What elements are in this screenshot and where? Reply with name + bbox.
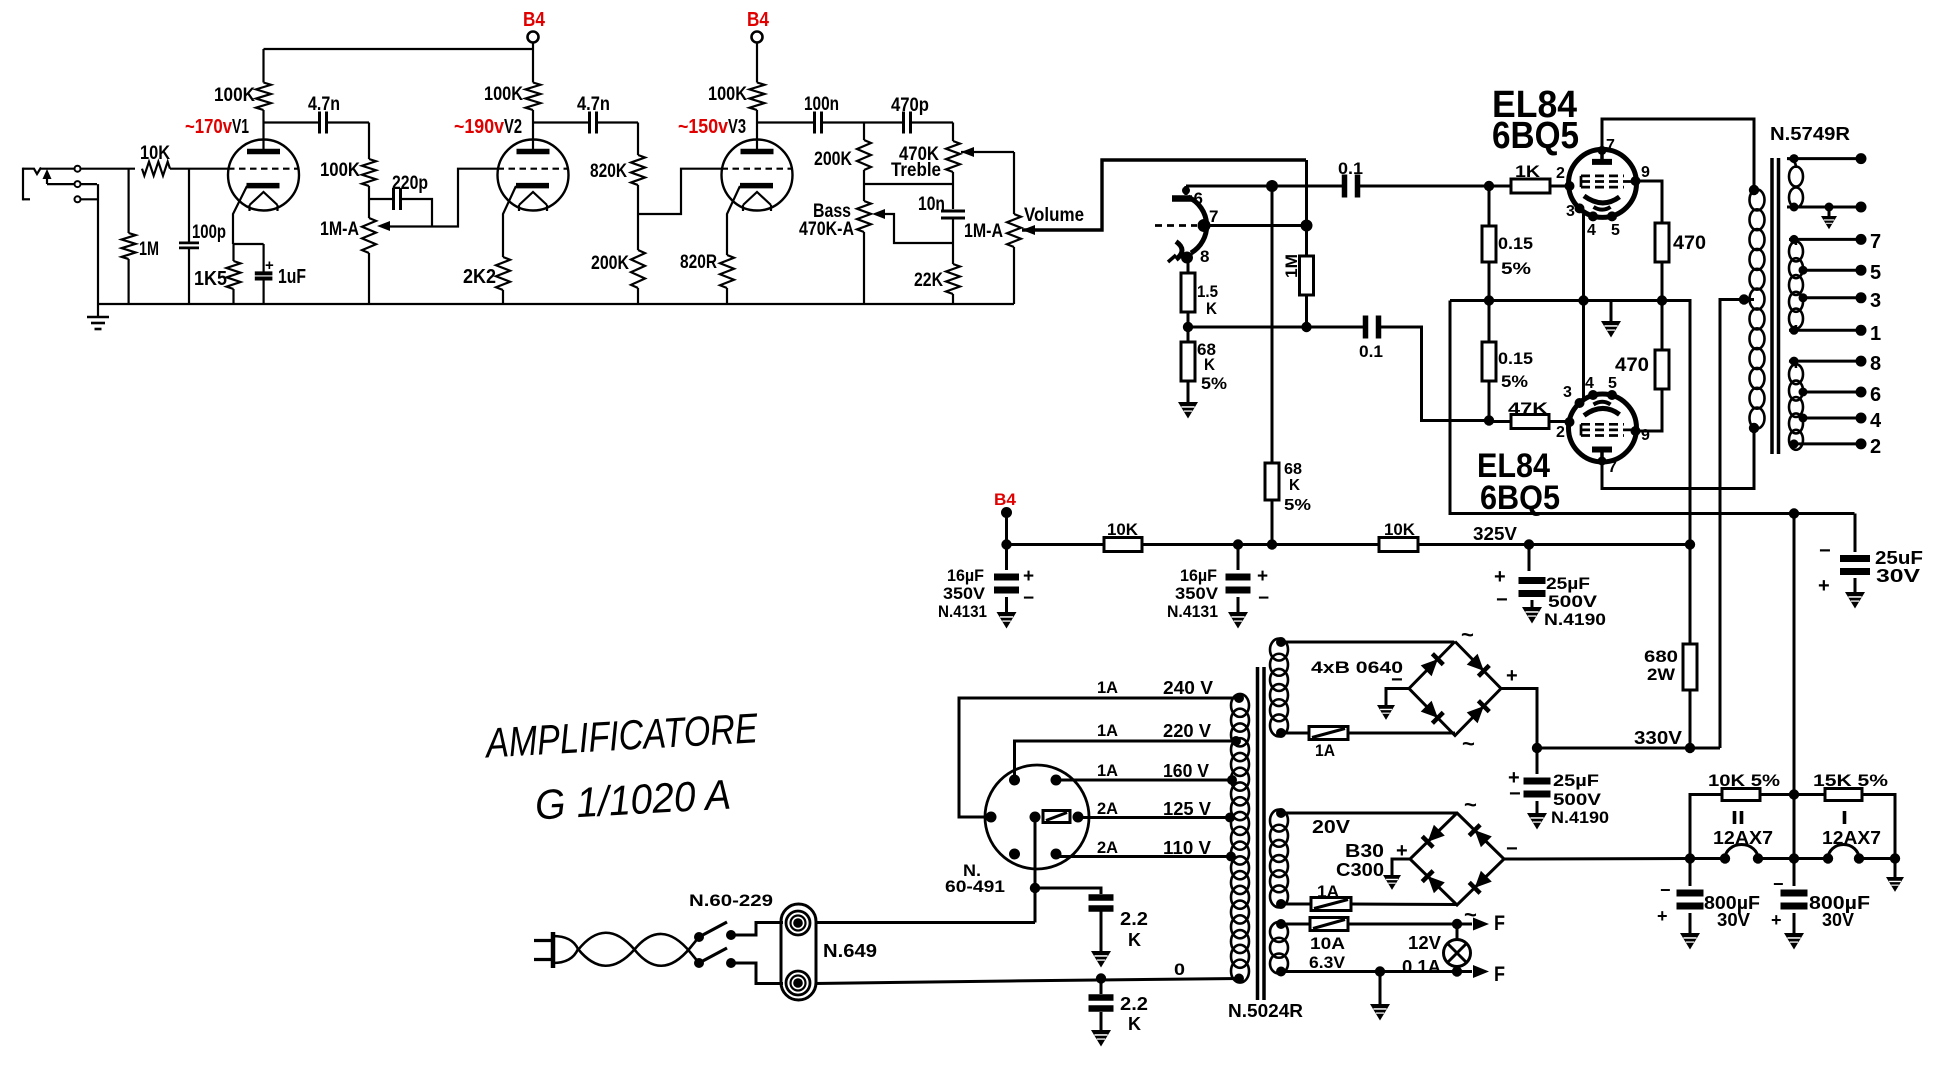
label 1K [1515, 162, 1541, 181]
title AMPLIFICATORE [482, 704, 759, 766]
label N.60-229 [689, 891, 773, 910]
junction heater 6 [1854, 853, 1864, 863]
svg-text:B4: B4 [747, 9, 770, 31]
svg-text:25uF: 25uF [1875, 548, 1923, 568]
svg-text:4xB 0640: 4xB 0640 [1311, 658, 1403, 677]
selector pin TL [1009, 775, 1020, 786]
wire feedback down [1793, 514, 1796, 859]
wire cap to 100K grid [327, 123, 370, 160]
wire 200K to bass [863, 170, 865, 201]
wire V1 plate [262, 123, 264, 152]
label 100n [804, 94, 839, 115]
junction OPT center tap [1739, 294, 1749, 304]
wire 1M to rail [128, 259, 130, 304]
svg-text:68: 68 [1284, 461, 1302, 478]
svg-text:0.15: 0.15 [1498, 349, 1533, 368]
svg-text:110 V: 110 V [1163, 838, 1211, 858]
junction cathode node [1183, 322, 1193, 332]
svg-text:330V: 330V [1634, 728, 1682, 748]
wire common to 2.2K upper [1035, 888, 1101, 894]
label 0.1 lower [1359, 342, 1383, 361]
svg-text:7: 7 [1870, 231, 1881, 253]
svg-text:7: 7 [1608, 459, 1617, 476]
wiper arrow 1M-A first [377, 221, 390, 231]
junction 20V top [1276, 808, 1286, 818]
wire splitter grid [1203, 224, 1307, 227]
wire B4 V2 down [532, 43, 534, 83]
wire 820K to 200K [637, 185, 639, 250]
label 2A 125V [1097, 799, 1211, 819]
svg-text:220p: 220p [392, 173, 428, 194]
wire OPT tap 4 [1799, 414, 1862, 423]
resistor 820R [720, 255, 734, 304]
wire V3 plate to 100n [757, 121, 815, 123]
svg-text:N.4131: N.4131 [938, 602, 987, 621]
label 1A 220V [1097, 721, 1211, 741]
ground bridge2 [1383, 859, 1410, 890]
label terminal 3 [1870, 290, 1881, 312]
svg-text:+: + [1771, 910, 1782, 930]
svg-text:470p: 470p [891, 95, 929, 116]
label 1A 20V [1317, 882, 1339, 901]
svg-text:+: + [265, 257, 274, 274]
svg-text:6BQ5: 6BQ5 [1492, 115, 1579, 157]
wire to V3 grid [638, 169, 722, 214]
label C300 [1336, 860, 1384, 880]
label plus 25uF first [1494, 566, 1506, 588]
label ~190v V2 [454, 116, 522, 138]
svg-text:100K: 100K [708, 84, 747, 105]
label terminal 5 [1870, 262, 1881, 284]
wire rail mid [1142, 543, 1379, 546]
ground OPT sec1 [1821, 203, 1837, 230]
svg-text:N.5749R: N.5749R [1770, 124, 1850, 144]
junction sec1 bottom tap [1790, 203, 1799, 212]
label EL84 lower [1477, 447, 1560, 517]
ground 16uF second [1228, 597, 1248, 629]
jack sleeve contact [75, 196, 81, 202]
terminal 3 [1856, 292, 1867, 303]
junction 63V top [1276, 919, 1286, 929]
label plus bridge2 [1396, 840, 1408, 862]
capacitor 800uF first [1677, 859, 1704, 910]
resistor 68K second [1265, 463, 1279, 500]
capacitor 0.1 lower [1363, 316, 1382, 339]
svg-text:1A: 1A [1097, 721, 1118, 740]
svg-text:1M-A: 1M-A [964, 221, 1003, 242]
wire rail to 325V [1418, 543, 1690, 546]
wire cathode upper [1582, 214, 1585, 400]
svg-text:820R: 820R [680, 252, 717, 273]
jack ring contact [75, 181, 81, 187]
svg-text:5%: 5% [1501, 372, 1528, 391]
wire pin6 down to 68K [1271, 186, 1274, 463]
wire switch2 to fuseholder [731, 963, 783, 984]
svg-text:10K 5%: 10K 5% [1708, 771, 1780, 790]
label 10K rail second [1384, 520, 1416, 539]
label Volume [1024, 205, 1084, 226]
label 1M [139, 239, 159, 260]
label 100K V1 [214, 85, 255, 106]
svg-text:20V: 20V [1312, 817, 1350, 837]
svg-text:1M: 1M [1282, 254, 1301, 278]
junction heater 4 [1789, 853, 1799, 863]
resistor 1M splitter [1300, 226, 1314, 328]
ground 68K first [1178, 381, 1198, 419]
wire 240V [959, 698, 1239, 817]
label 325V [1473, 524, 1517, 544]
capacitor 10n [941, 184, 965, 243]
label 1M splitter [1282, 254, 1301, 278]
resistor 47K [1511, 415, 1549, 429]
wire 1K in [1489, 185, 1511, 188]
terminal sec1 bottom [1856, 202, 1867, 213]
svg-text:3: 3 [1870, 290, 1881, 312]
wire OPT sec1 top [1787, 157, 1861, 160]
label II 12AX7 [1713, 808, 1773, 848]
junction screen 0.15 [1485, 296, 1494, 305]
svg-text:500V: 500V [1548, 592, 1598, 611]
potentiometer 470K Treble [946, 141, 960, 172]
label 12V [1408, 933, 1441, 953]
wire treble bottom [864, 172, 953, 184]
label minus 25uF first [1496, 589, 1508, 611]
junction OPT primary bottom [1749, 423, 1759, 433]
label 2.2K lower [1120, 994, 1148, 1034]
heater I 12AX7 [1828, 845, 1859, 859]
label + 1uF [265, 257, 274, 274]
wiper arrow Treble [961, 147, 974, 157]
wiper arrow Volume [1022, 225, 1035, 235]
svg-text:47K: 47K [1508, 399, 1549, 418]
svg-text:8: 8 [1870, 353, 1881, 375]
wire screen to rail [1662, 301, 1690, 545]
label plus 800uF second [1771, 910, 1782, 930]
svg-text:−: − [1660, 880, 1671, 900]
svg-text:−: − [1506, 838, 1518, 860]
svg-text:4: 4 [1585, 375, 1594, 392]
svg-text:6.3V: 6.3V [1309, 953, 1346, 972]
terminal B4 V2 [528, 32, 539, 43]
wire 0.15 first to mid [1488, 262, 1491, 301]
label 10K 5pct [1708, 771, 1780, 790]
svg-text:K: K [1289, 477, 1300, 494]
resistor 10K 5pct [1690, 789, 1794, 859]
svg-text:B4: B4 [523, 9, 546, 31]
capacitor 100n [815, 112, 822, 134]
svg-text:+: + [1257, 566, 1268, 587]
label B4 V2 [523, 9, 546, 31]
svg-text:4: 4 [1587, 222, 1596, 239]
svg-text:1A: 1A [1315, 741, 1335, 760]
wire volume down to grid [1305, 160, 1308, 226]
pin5 lower label [1608, 375, 1617, 392]
capacitor 2.2K upper [1089, 894, 1114, 912]
svg-text:100p: 100p [192, 222, 226, 243]
triode half V4 splitter [1155, 186, 1207, 264]
wire fuse to bridge2 bottom [1351, 903, 1458, 907]
svg-text:~: ~ [1461, 622, 1474, 647]
selector pin C [1030, 812, 1041, 823]
mains plug [534, 932, 578, 968]
junction sec1 top tap [1790, 154, 1799, 163]
svg-text:+: + [1657, 906, 1668, 926]
heater II 12AX7 [1725, 845, 1758, 859]
selector pin BL [1009, 849, 1020, 860]
capacitor 25uF 30V right [1840, 512, 1870, 575]
resistor 10K rail second [1379, 538, 1418, 552]
svg-text:60-491: 60-491 [945, 877, 1005, 896]
svg-text:2K2: 2K2 [463, 266, 496, 288]
svg-text:Treble: Treble [891, 160, 941, 181]
svg-text:30V: 30V [1717, 910, 1750, 930]
junction 20V bottom [1276, 899, 1286, 909]
label terminal 6 [1870, 384, 1881, 406]
transformer PT core [1258, 667, 1265, 1000]
potentiometer 1M-A first [362, 218, 376, 304]
terminal B4 supply [1001, 507, 1012, 545]
svg-text:3: 3 [1566, 203, 1575, 220]
transformer PT 20V secondary [1270, 810, 1288, 908]
label 1A 160V [1097, 761, 1209, 781]
svg-text:5%: 5% [1501, 259, 1531, 278]
svg-text:K: K [1128, 930, 1141, 950]
ground heater right [1886, 853, 1904, 892]
svg-text:−: − [1023, 588, 1034, 609]
svg-text:N.4190: N.4190 [1551, 808, 1609, 827]
svg-text:F: F [1494, 912, 1505, 935]
pin5 upper label [1611, 222, 1620, 239]
svg-text:N.4190: N.4190 [1544, 610, 1606, 629]
capacitor 220p [394, 188, 401, 210]
svg-text:9: 9 [1641, 427, 1650, 444]
ground symbol preamp [87, 304, 109, 329]
junction 68K rail [1267, 539, 1277, 549]
jack tip contact [75, 166, 81, 172]
wiper arrow Bass [872, 209, 885, 219]
svg-text:2A: 2A [1097, 838, 1118, 857]
junction 160V tap [1227, 775, 1237, 785]
junction lamp bottom [1452, 966, 1462, 976]
label 100K grid V2 [320, 160, 360, 181]
label 1A 240V [1097, 678, 1213, 698]
label 10n [918, 194, 945, 215]
svg-text:N.60-229: N.60-229 [689, 891, 773, 910]
svg-text:680: 680 [1644, 647, 1678, 666]
junction 63V ground [1375, 966, 1385, 976]
svg-text:12AX7: 12AX7 [1822, 828, 1881, 848]
wire 20V bottom to fuse [1281, 903, 1311, 906]
svg-text:4.7n: 4.7n [577, 94, 610, 115]
svg-text:N.4131: N.4131 [1167, 602, 1218, 621]
junction lamp top [1452, 919, 1462, 929]
svg-text:22K: 22K [914, 270, 943, 291]
svg-text:1A: 1A [1097, 761, 1118, 780]
capacitor 1uF [255, 273, 273, 278]
wire HV bottom to fuse [1281, 732, 1309, 735]
svg-text:V2: V2 [504, 116, 522, 138]
wire 0.1 lower out [1381, 327, 1490, 421]
ground 63V [1370, 972, 1390, 1021]
junction cathode ground [1578, 295, 1588, 305]
junction 330V 680 [1685, 743, 1695, 753]
svg-text:0.1: 0.1 [1338, 159, 1363, 178]
wire 680 down [1689, 690, 1692, 748]
switch pole 1 [694, 922, 736, 942]
resistor 0.15 first [1482, 186, 1496, 262]
svg-text:V1: V1 [232, 116, 249, 138]
wire jack ring contact [47, 183, 97, 185]
svg-text:0.1A: 0.1A [1402, 957, 1441, 977]
label minus 25uF right [1819, 540, 1831, 562]
label plus 25uF right [1818, 575, 1830, 597]
terminal 5 [1856, 265, 1867, 276]
pin3 lower label [1563, 384, 1572, 401]
label 1K5 [194, 268, 227, 290]
pentode EL84 upper [1565, 146, 1641, 222]
svg-text:0.15: 0.15 [1498, 234, 1533, 253]
label 200K second [814, 149, 852, 170]
wire bridge2 minus to heaters [1504, 857, 1690, 861]
svg-text:325V: 325V [1473, 524, 1517, 544]
arrow F bottom [1457, 965, 1489, 978]
label 22K [914, 270, 943, 291]
svg-text:470: 470 [1673, 233, 1706, 254]
ground 25uF right [1845, 578, 1865, 609]
svg-text:−: − [1773, 874, 1784, 894]
transformer OPT secondary 2 [1789, 239, 1803, 330]
switch pole 2 [694, 948, 736, 968]
junction 470 mid [1657, 295, 1667, 305]
wire zero line [815, 979, 1239, 984]
label minus bridge2 [1506, 838, 1518, 860]
pin4 upper label [1587, 222, 1596, 239]
svg-text:1M-A: 1M-A [320, 219, 359, 240]
capacitor 470p [904, 112, 911, 134]
terminal 1 [1856, 325, 1867, 336]
label 1M-A Volume [964, 221, 1003, 242]
wire treble wiper to volume [961, 151, 1014, 153]
label terminal 2 [1870, 436, 1881, 458]
label terminal 4 [1870, 410, 1882, 432]
label 25uF first [1544, 574, 1606, 629]
resistor 1K5 [227, 244, 241, 304]
junction 10K 15K [1789, 789, 1799, 799]
wire fuse top out [815, 888, 1035, 923]
wire V1 cathode [233, 186, 247, 244]
svg-text:10A: 10A [1310, 934, 1345, 953]
label 2K2 [463, 266, 496, 288]
label 20V [1312, 817, 1350, 837]
wire fuse to bridge bottom [1348, 732, 1455, 735]
svg-text:25µF: 25µF [1553, 771, 1599, 790]
wire OPT tap 6 [1799, 388, 1862, 397]
label 800uF first [1704, 893, 1760, 930]
label 10A [1310, 934, 1345, 953]
potentiometer Bass 470K-A [857, 201, 871, 304]
wire bass wiper to 10n [885, 214, 953, 243]
svg-text:5: 5 [1608, 375, 1617, 392]
wire V3 plate [756, 123, 758, 152]
label tilde bridge1 top [1461, 622, 1474, 647]
wire pin9 upper [1636, 181, 1662, 223]
wire EL84 upper plate to OPT [1602, 119, 1754, 190]
capacitor 25uF 500V second [1524, 748, 1551, 798]
resistor 1M [122, 233, 136, 259]
junction 0.15 top [1484, 181, 1494, 191]
junction feedback right [1789, 508, 1799, 518]
svg-text:100K: 100K [484, 84, 523, 105]
label EL84 upper [1492, 84, 1579, 157]
svg-text:100n: 100n [804, 94, 839, 115]
capacitor 16uF second [1226, 545, 1251, 594]
pin7 upper label [1606, 137, 1615, 154]
terminal B4 V3 [752, 32, 763, 43]
transformer OPT secondary 3 [1789, 361, 1803, 450]
label 0.1 upper [1338, 159, 1363, 178]
svg-text:C300: C300 [1336, 860, 1384, 880]
junction 125V tap [1225, 813, 1235, 823]
svg-text:100K: 100K [214, 85, 255, 106]
svg-text:+: + [1494, 566, 1506, 588]
svg-text:10K: 10K [140, 143, 170, 164]
label ~170v V1 [185, 116, 249, 138]
triode V1 [228, 140, 299, 212]
junction splitter plate [1266, 180, 1278, 192]
label 0.15 first [1498, 234, 1533, 278]
resistor 10K input [142, 162, 170, 176]
label minus 25uF second [1509, 783, 1521, 805]
label 1.5K [1197, 282, 1218, 318]
svg-text:30V: 30V [1876, 566, 1920, 586]
wire 0.15 second down [1488, 381, 1491, 421]
svg-text:N.649: N.649 [823, 941, 877, 961]
label plus 800uF first [1657, 906, 1668, 926]
label tilde bridge1 bottom [1462, 731, 1475, 756]
label 2.2K upper [1120, 909, 1148, 950]
resistor 100K V2 plate [526, 83, 541, 123]
selector pin L [986, 812, 997, 823]
wire 125V [1078, 816, 1230, 819]
wire EL84 lower plate to OPT [1602, 428, 1754, 489]
resistor 0.15 second [1482, 301, 1496, 382]
label 4.7n second [577, 94, 610, 115]
label 25uF second [1551, 771, 1609, 827]
label terminal 8 [1870, 353, 1881, 375]
resistor 200K second [857, 140, 871, 170]
svg-text:30V: 30V [1822, 910, 1854, 930]
label 47K [1508, 399, 1549, 418]
ground 2.2K lower [1091, 1012, 1111, 1047]
svg-text:8: 8 [1200, 247, 1209, 266]
svg-text:B30: B30 [1345, 841, 1384, 861]
pin2 upper label [1556, 165, 1565, 182]
wire OPT tap 5 [1799, 266, 1862, 275]
svg-text:10K: 10K [1107, 520, 1139, 539]
capacitor 2.2K lower [1089, 979, 1114, 1012]
label 800uF second [1809, 893, 1870, 930]
svg-text:1A: 1A [1097, 678, 1118, 697]
svg-text:1K: 1K [1515, 162, 1541, 181]
ground bridge1 [1377, 689, 1409, 720]
label 820K [590, 161, 627, 182]
svg-text:470: 470 [1615, 355, 1649, 376]
label tilde bridge2 bottom [1464, 902, 1477, 927]
label 220p [392, 173, 428, 194]
wire 47K to pin2 lower [1549, 420, 1568, 423]
label 16uF second [1167, 566, 1219, 621]
junction PT zero tap [1234, 974, 1244, 984]
